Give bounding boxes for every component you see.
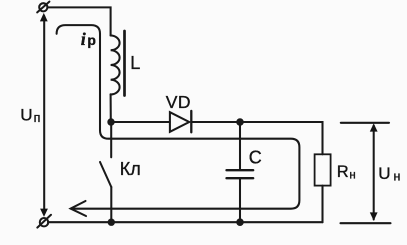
switch Кл top contact wire — [110, 125, 112, 157]
switch Кл blade — [100, 162, 111, 187]
current loop i_p path — [57, 25, 300, 209]
terminal top-left — [39, 3, 47, 11]
Uн measurement line — [373, 126, 375, 220]
node junction inductor/diode/switch — [107, 118, 114, 125]
Uп arrowhead up — [40, 13, 48, 22]
Uн measurement top bar — [341, 122, 389, 124]
current loop arrowhead (points left) — [71, 201, 86, 216]
node capacitor/bottom wire — [236, 218, 244, 226]
inductor L coil — [111, 36, 120, 95]
wire middle right (diode to right corner) + right branch top — [191, 122, 322, 154]
wire bottom — [48, 221, 322, 223]
diode VD triangle — [170, 112, 189, 132]
wire coil to node — [110, 94, 112, 122]
switch Кл bottom wire — [110, 187, 112, 222]
capacitor C top plate — [227, 169, 254, 171]
svg-text:L: L — [130, 53, 140, 73]
wire middle left (node to diode) — [111, 121, 170, 123]
inductor core bar — [123, 31, 126, 96]
svg-text:ip: ip — [81, 29, 96, 49]
diode VD cathode bar — [190, 111, 192, 132]
Uн arrowhead down — [370, 212, 378, 220]
resistor Rн box — [315, 154, 331, 185]
Uн measurement bottom bar — [341, 222, 391, 224]
capacitor C bottom plate — [227, 177, 254, 179]
capacitor branch bottom wire — [239, 179, 241, 222]
capacitor branch top wire — [239, 122, 241, 169]
svg-text:Кл: Кл — [120, 159, 141, 179]
svg-text:VD: VD — [166, 92, 191, 112]
wire right branch bottom — [321, 186, 323, 223]
wire top — [48, 7, 111, 35]
terminal bottom-left — [40, 218, 48, 226]
node diode/capacitor — [236, 118, 244, 126]
Uн arrowhead up — [370, 123, 378, 131]
node switch/bottom wire — [108, 219, 115, 226]
Uп measurement line — [43, 16, 45, 214]
Uп arrowhead down — [40, 209, 48, 217]
svg-text:C: C — [249, 148, 262, 168]
